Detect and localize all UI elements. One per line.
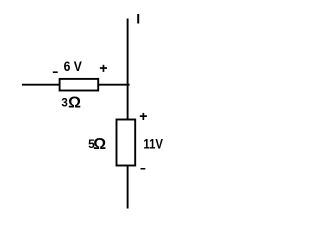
resistor R2 5-ohm / source 11V (vertical box) [117,120,136,166]
polarity - (left of 6 V) [53,71,58,73]
wire: left horizontal branch into node A [22,84,130,86]
svg-text:6 V: 6 V [64,58,83,74]
svg-text:Ω: Ω [68,95,81,112]
polarity + (top of 11V) [140,113,147,120]
wire: vertical branch carrying current I [127,19,129,209]
svg-text:Ω: Ω [93,136,106,153]
resistor R1 3-ohm / source 6V (horizontal box) [60,79,99,91]
svg-text:I: I [136,11,140,27]
svg-text:11V: 11V [143,137,163,152]
polarity + (right of 6 V) [100,65,107,72]
polarity - (bottom of 11V) [141,168,146,170]
